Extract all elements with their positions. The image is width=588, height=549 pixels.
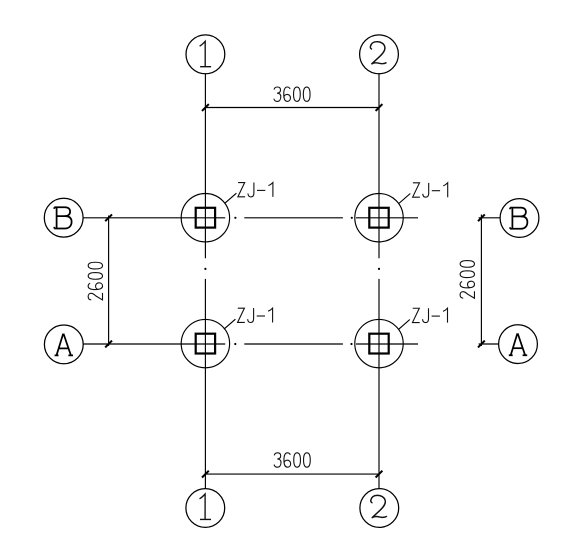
right dimension line 2600 [480, 215, 482, 347]
axis bubble 1 top [186, 35, 225, 74]
node row-B dot 2 [351, 217, 353, 219]
letter B left [54, 207, 71, 228]
top dimension line 3600 [205, 107, 379, 109]
label ZJ-1 A1 [238, 308, 273, 322]
foundation ZJ-1 at B1 [181, 194, 229, 242]
foundation ZJ-1 at A1 [181, 319, 229, 367]
wire column-1 lower segment [204, 279, 206, 489]
wire row-B through foundation 2 [356, 217, 418, 219]
axis bubble 2 bottom [360, 489, 399, 528]
label ZJ-1 B2 [413, 183, 448, 197]
wire row-A middle dash [244, 343, 343, 345]
wire column-2 upper segment [378, 74, 380, 259]
label ZJ-1 B1 [238, 183, 273, 197]
axis bubble B left [44, 198, 83, 237]
bottom dimension line 3600 [205, 473, 379, 475]
axis bubble 1 bottom [186, 489, 225, 528]
top dimension text 3600 [274, 87, 310, 101]
numeral 1 top [200, 41, 212, 66]
right dimension text 2600 (rotated) [460, 261, 474, 299]
axis bubble A left [44, 325, 83, 364]
wire column-2 lower segment [378, 279, 380, 489]
foundation ZJ-1 at B2 [355, 194, 403, 242]
node column-2 centerline dot [378, 268, 380, 270]
numeral 1 bottom [200, 494, 212, 519]
left dimension text 2600 (rotated) [88, 262, 102, 300]
wire row-A through foundation 2 [356, 343, 418, 345]
wire row-A right stub [479, 343, 499, 345]
wire row-B middle dash [244, 217, 343, 219]
wire row-B left segment [83, 217, 225, 219]
letter A left [55, 334, 73, 356]
numeral 2 top [370, 42, 386, 65]
node column-1 centerline dot [204, 268, 206, 270]
node row-A dot 2 [350, 343, 352, 345]
wire column-1 upper segment [204, 74, 206, 259]
letter B right [510, 208, 527, 229]
leader B2 [399, 194, 411, 204]
node row-A dot 1 [234, 343, 236, 345]
axis bubble B right [500, 199, 539, 238]
bottom dimension text 3600 [274, 453, 310, 467]
numeral 2 bottom [371, 495, 387, 518]
wire row-A left segment [83, 343, 225, 345]
axis bubble 2 top [360, 35, 399, 74]
foundation ZJ-1 at A2 [355, 319, 403, 367]
left dimension line 2600 [108, 216, 110, 347]
node row-B dot 1 [234, 217, 236, 219]
wire row-B right stub [479, 217, 501, 219]
leader B1 [225, 193, 237, 203]
letter A right [509, 333, 527, 355]
axis bubble A right [499, 325, 538, 364]
leader A1 [224, 319, 236, 329]
label ZJ-1 A2 [412, 308, 447, 322]
leader A2 [399, 320, 410, 330]
